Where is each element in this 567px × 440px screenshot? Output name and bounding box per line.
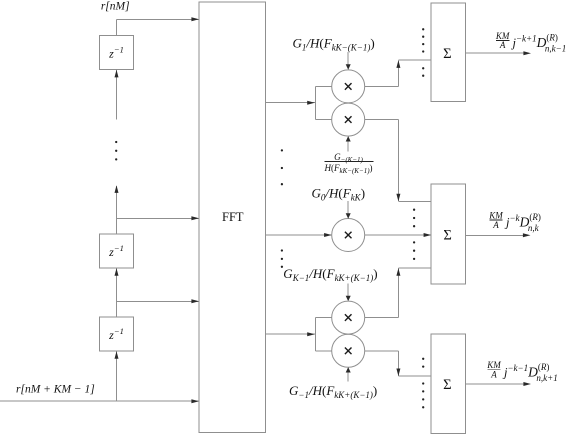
multiplier M4 (GK-1 branch) [332, 301, 365, 334]
label GK-1/H(FkK+(K-1)) coefficient [283, 266, 377, 283]
wire multiplier M5 output down to summer S3 input [365, 351, 432, 376]
summer S1 ellipsis above input [422, 28, 424, 52]
splitter bracket of pair 1 [315, 86, 331, 119]
wire summer S2 output [465, 233, 530, 237]
wire coefficient G1 down into multiplier M1 [346, 52, 351, 70]
svg-text:A: A [492, 220, 499, 230]
wire coefficient G-1 up into multiplier M5 [346, 367, 351, 381]
wire from delay Z3 output up into delay Z2 with arrowhead [115, 268, 119, 317]
svg-text:Σ: Σ [443, 377, 451, 393]
summer S1 block [431, 3, 465, 102]
label G-(K-1)/H(FkK-(K-1)) coefficient fraction [323, 152, 373, 175]
label G-1/H(FkK+(K-1)) coefficient [289, 383, 377, 400]
label Sigma of S2 [443, 227, 451, 243]
summer S3 block [431, 334, 465, 434]
svg-text:A: A [490, 370, 497, 380]
wire multiplier M2 output down to summer S2 top input [365, 120, 432, 202]
delay block Z2 [100, 234, 134, 268]
wire summer S3 output [465, 382, 531, 386]
summer S1 ellipsis below input [422, 67, 424, 77]
node r[nM] input label [101, 1, 130, 13]
node output label KM/A j^-k D(R) n,k [488, 210, 541, 233]
wire multiplier M1 output up to summer S1 input [365, 60, 432, 86]
wire coefficient fraction up into multiplier M2 [346, 136, 351, 151]
svg-text:r[nM + KM − 1]: r[nM + KM − 1] [16, 384, 95, 396]
label z^-1 of Z1 [108, 45, 124, 61]
svg-text:A: A [499, 40, 506, 50]
wire tap 1 from chain to FFT input 2 [117, 216, 200, 220]
summer S3 ellipsis above input [422, 358, 424, 368]
label Sigma of S1 [443, 46, 451, 62]
wire from ellipsis up into delay Z1 with arrowhead [115, 70, 119, 120]
splitter bracket of pair 2 [315, 318, 331, 351]
wire from bottom input up into delay Z3 with arrowhead [115, 351, 119, 401]
wire bottom input line to FFT input 4 [0, 399, 199, 403]
svg-text:Σ: Σ [443, 227, 451, 243]
wire tap 2 from chain to FFT input 3 [117, 299, 200, 303]
wire coefficient G0 down into multiplier M3 [346, 201, 351, 219]
multiplier M2 (G-(K-1) branch) [332, 103, 365, 136]
FFT outputs ellipsis A [281, 149, 283, 185]
wire from delay Z1 output up and right to FFT input 1 [117, 17, 200, 35]
label Sigma of S3 [443, 377, 451, 393]
FFT block [199, 2, 266, 432]
delay block Z1 [100, 36, 134, 70]
multiplier M3 (G0 branch) [332, 219, 365, 252]
node r[nM+KM-1] input label [16, 384, 95, 396]
wire FFT output 3 to splitter bracket of multiplier pair 2 [266, 332, 316, 336]
summer S2 block [431, 184, 465, 284]
summer S2 ellipsis above middle input [413, 209, 415, 228]
summer S3 ellipsis below input [422, 382, 424, 408]
svg-text:Σ: Σ [443, 46, 451, 62]
label G1/H(FkK-(K-1)) coefficient [293, 36, 375, 53]
wire FFT output 1 to splitter bracket of multiplier pair 1 [266, 101, 316, 105]
wire multiplier M4 output up to summer S2 bottom input [365, 268, 432, 318]
wire multiplier M3 output to summer S2 middle input [365, 233, 432, 237]
node output label KM/A j^-k-1 D(R) n,k+1 [486, 360, 557, 383]
label FFT [222, 210, 244, 224]
label z^-1 of Z2 [108, 243, 124, 259]
summer S2 ellipsis below middle input [413, 241, 415, 260]
multiplier M1 (G1 branch) [332, 70, 365, 103]
wire coefficient GK-1 down into multiplier M4 [346, 284, 351, 302]
wire from delay Z2 output up to ellipsis with arrowhead [115, 185, 119, 234]
FFT outputs ellipsis B [281, 249, 283, 268]
node output label KM/A j^-k+1 D(R) n,k-1 [495, 31, 566, 54]
wire FFT output 2 into multiplier M3 [266, 233, 332, 237]
label G0/H(FkK) coefficient [312, 185, 366, 202]
delay block Z3 [100, 317, 134, 351]
multiplier M5 (G-1 branch) [332, 334, 365, 367]
label z^-1 of Z3 [108, 326, 124, 342]
chain vertical ellipsis [115, 141, 117, 161]
svg-text:r[nM]: r[nM] [101, 1, 130, 13]
wire summer S1 output [465, 51, 531, 55]
svg-text:FFT: FFT [222, 210, 244, 224]
